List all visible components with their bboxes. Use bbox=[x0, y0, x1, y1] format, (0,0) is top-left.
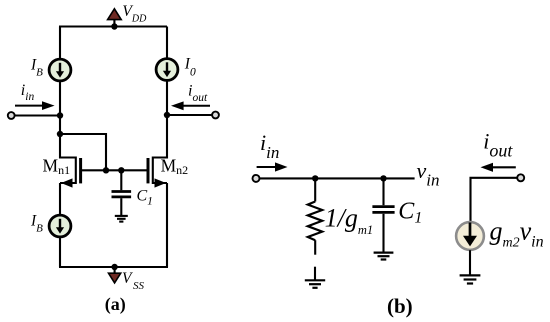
wire: left column from IB bottom to Mn1 drain bend bbox=[59, 82, 61, 159]
terminal: input (open circle) bbox=[8, 112, 15, 119]
wire: Mn1 source down to IB2 bbox=[59, 183, 61, 214]
svg-text:iin: iin bbox=[260, 130, 279, 162]
current source IB (bottom) bbox=[49, 215, 71, 237]
svg-text:iin: iin bbox=[21, 82, 35, 103]
svg-text:iout: iout bbox=[188, 82, 208, 103]
terminal: output (panel b) bbox=[517, 174, 524, 181]
svg-text:IB: IB bbox=[30, 56, 43, 78]
node dot: gate junction bbox=[103, 167, 109, 173]
controlled source gm2*vin bbox=[456, 222, 484, 250]
svg-text:VSS: VSS bbox=[122, 270, 144, 292]
node dot: output node bbox=[164, 112, 170, 118]
svg-text:iout: iout bbox=[483, 129, 513, 161]
node dot: capacitor tap bbox=[118, 167, 124, 173]
capacitor C1 (panel a) bbox=[112, 170, 132, 215]
VSS symbol (stem + filled triangle) bbox=[109, 267, 121, 283]
current source IB (top) bbox=[49, 59, 71, 81]
node dot: resistor tap bbox=[312, 175, 318, 181]
node dot: capacitor tap (panel b) bbox=[380, 175, 386, 181]
wire: input rail (panel b) bbox=[260, 177, 415, 179]
arrow i_out (panel b) bbox=[481, 163, 516, 172]
svg-text:Mn2: Mn2 bbox=[161, 156, 189, 177]
transistor Mn1 bbox=[60, 158, 81, 188]
wire: output lead down to source (panel b) bbox=[471, 178, 518, 222]
svg-text:(a): (a) bbox=[105, 294, 126, 315]
wire: input lead bbox=[15, 114, 60, 116]
terminal: input (panel b) bbox=[253, 175, 260, 182]
svg-text:C1: C1 bbox=[398, 199, 422, 227]
svg-text:I0: I0 bbox=[184, 56, 196, 79]
wire: VSS bottom rail bbox=[59, 266, 168, 268]
node dot: input node bbox=[57, 112, 63, 118]
VDD symbol (stem + filled triangle) bbox=[108, 9, 122, 27]
svg-text:(b): (b) bbox=[387, 294, 413, 318]
wire: source to ground (panel b) bbox=[469, 250, 471, 274]
wire: Mn2 source down right column bbox=[166, 183, 168, 267]
wire: left column from rail to IB top bbox=[59, 27, 61, 59]
svg-text:VDD: VDD bbox=[122, 3, 147, 24]
svg-text:vin: vin bbox=[417, 158, 440, 190]
wire: gate bus between Mn1 and Mn2 bbox=[82, 169, 147, 171]
svg-text:gm2vin: gm2vin bbox=[490, 217, 544, 251]
wire: IB2 to VSS rail bbox=[59, 238, 61, 267]
svg-text:1/gm1: 1/gm1 bbox=[325, 204, 374, 237]
ground under C1 (panel b) bbox=[374, 253, 394, 260]
wire: VDD top rail bbox=[59, 25, 167, 27]
current source I0 bbox=[156, 59, 178, 81]
svg-text:Mn1: Mn1 bbox=[43, 156, 71, 177]
svg-text:C1: C1 bbox=[137, 187, 153, 207]
terminal: output (open circle) bbox=[212, 112, 219, 119]
capacitor C1 (panel b) bbox=[372, 178, 394, 251]
arrow i_in bbox=[15, 101, 55, 110]
transistor Mn2 bbox=[148, 158, 167, 188]
node dot: diode tap bbox=[57, 131, 63, 137]
ground under gm2vin source bbox=[460, 275, 481, 283]
arrow i_in (panel b) bbox=[257, 162, 288, 171]
arrow i_out (panel a) bbox=[171, 101, 210, 110]
wire: diode connection to gates bbox=[60, 134, 106, 170]
ground under resistor (panel b) bbox=[305, 267, 325, 288]
node dot at VSS rail bbox=[111, 264, 117, 270]
ground under C1 (panel a) bbox=[115, 216, 128, 222]
node dot at VDD rail bbox=[111, 23, 117, 29]
wire: right column I0 to Mn2 drain bbox=[166, 82, 168, 159]
wire: right column from rail to I0 bbox=[166, 27, 168, 58]
resistor 1/gm1 bbox=[308, 178, 322, 254]
wire: output lead bbox=[167, 114, 212, 116]
svg-text:IB: IB bbox=[30, 212, 43, 234]
